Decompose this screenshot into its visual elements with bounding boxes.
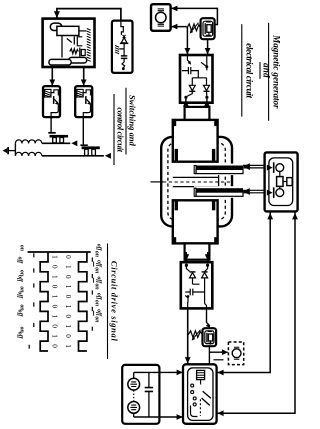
battery box outline bbox=[122, 365, 159, 424]
motor M1 circle bbox=[156, 12, 167, 23]
arrowhead into motor top bbox=[171, 6, 177, 12]
snubber tail dot bbox=[122, 67, 125, 70]
wire W1 down right side bbox=[217, 211, 271, 372]
snubber diode bar bbox=[120, 42, 128, 44]
U3 center rect bbox=[279, 172, 281, 189]
underline Switching and bbox=[125, 88, 127, 155]
arrowhead up into U3 right bbox=[292, 213, 298, 219]
gap band lines bbox=[173, 173, 219, 190]
MOSFET Q2 channel bar bbox=[82, 146, 100, 149]
battery dotted link bbox=[133, 390, 135, 401]
coil bar W1 solid bbox=[196, 166, 243, 170]
coil bar W1 left cap bbox=[194, 166, 196, 174]
wire rectangle to winding bbox=[79, 30, 87, 32]
arrowhead into driver A bbox=[49, 80, 55, 86]
relay K2 stubs bbox=[208, 331, 213, 344]
svg-text:1: 1 bbox=[64, 305, 72, 309]
motor box M1 outline bbox=[151, 4, 171, 31]
terminal bar bbox=[7, 147, 9, 154]
wire joining L1 L2 bbox=[14, 143, 16, 156]
generator axis line bbox=[151, 181, 164, 183]
svg-text:Circuit drive signal: Circuit drive signal bbox=[109, 261, 119, 342]
svg-text:1: 1 bbox=[64, 285, 72, 289]
svg-text:and: and bbox=[262, 63, 272, 78]
rectifier box U3 outline bbox=[265, 152, 298, 211]
underline Magnetic generator bbox=[268, 23, 270, 121]
U2 exit wires bbox=[188, 302, 207, 308]
resistor R1 zigzag bbox=[187, 24, 201, 31]
U2 top terminal dots bbox=[185, 264, 188, 267]
battery leads bbox=[133, 372, 135, 417]
wire to motor M2 bbox=[210, 351, 228, 353]
U1 left hook wire bbox=[187, 56, 190, 64]
svg-text:off: off bbox=[17, 332, 23, 340]
battery wire top bbox=[134, 371, 183, 373]
svg-text:0: 0 bbox=[64, 334, 72, 338]
MOSFET Q1 gate wire bbox=[50, 117, 52, 132]
svg-text:0: 0 bbox=[50, 324, 58, 328]
wire relay K1 to inverter right bbox=[207, 39, 209, 55]
svg-text:1: 1 bbox=[50, 255, 58, 259]
driver B coil hatch bbox=[76, 89, 84, 100]
MOSFET Q1 gate bar bbox=[48, 132, 55, 134]
timing left square wave bbox=[40, 252, 48, 351]
generator core ring bbox=[161, 137, 232, 227]
switching control box outline bbox=[43, 19, 95, 67]
snubber zener cross bbox=[123, 35, 126, 38]
resistor R2 zigzag bbox=[188, 331, 202, 338]
switch box S1 outline bbox=[183, 364, 217, 424]
U2 hooks bbox=[186, 265, 189, 271]
terminal arrowhead bbox=[3, 148, 8, 153]
S1 contact circles bbox=[191, 384, 194, 387]
svg-text:1: 1 bbox=[50, 334, 58, 338]
relay K1 core rect bbox=[207, 25, 211, 33]
svg-text:0: 0 bbox=[50, 305, 58, 309]
svg-text:off: off bbox=[17, 291, 23, 299]
svg-text:0: 0 bbox=[50, 344, 58, 348]
timing digits right column bbox=[64, 255, 72, 348]
MOSFET Q2 gate wire bbox=[82, 117, 84, 144]
svg-text:off: off bbox=[17, 310, 23, 318]
S1 switch blades bbox=[202, 391, 211, 405]
relay K2 left bar bbox=[206, 333, 208, 342]
rectangle component inside switching box bbox=[57, 26, 79, 35]
generator lower stem bbox=[185, 243, 210, 259]
W1 wires to rectifier bbox=[243, 165, 265, 168]
stub wire below motor feed bbox=[214, 359, 224, 361]
timing separator dashes left bbox=[29, 253, 34, 348]
coil bar W2 solid bbox=[196, 188, 243, 192]
svg-text:on: on bbox=[94, 284, 100, 290]
arrows stem bottom to U2 bbox=[185, 252, 187, 262]
U1 diode D1 bbox=[189, 85, 195, 90]
relay K2 core rect bbox=[208, 334, 212, 341]
arrowhead left on node B rail bbox=[105, 153, 111, 159]
svg-text:off: off bbox=[17, 257, 23, 265]
inductor L2 bbox=[15, 152, 41, 155]
arrowhead into switch box left top bbox=[177, 370, 183, 376]
inverter box U1 outline bbox=[180, 55, 213, 103]
U1 bottom terminal dots bbox=[184, 96, 187, 99]
generator lower pole block bbox=[173, 200, 218, 243]
relay K1 inner frame bbox=[203, 21, 213, 36]
U2 diode D4 bbox=[202, 273, 208, 278]
svg-text:0: 0 bbox=[64, 295, 72, 299]
U3 inner frame bbox=[269, 158, 293, 206]
underline and bbox=[259, 62, 261, 79]
svg-text:1: 1 bbox=[64, 265, 72, 269]
inverter box U2 outline bbox=[181, 262, 213, 308]
W2 arrowhead bbox=[243, 188, 250, 195]
driver A transistor bbox=[53, 96, 55, 104]
snubber coil hatch bbox=[115, 46, 119, 54]
svg-text:Switching and: Switching and bbox=[128, 95, 138, 147]
generator upper pole block bbox=[173, 120, 218, 162]
MOSFET Q2 gate bar bbox=[80, 144, 87, 146]
wire U2 left down to switch box bbox=[187, 308, 189, 364]
arrowhead down left inverter entry bbox=[185, 48, 191, 54]
lower pole bold bars bbox=[175, 200, 178, 210]
driver B internal wire bbox=[83, 90, 91, 96]
svg-text:on: on bbox=[94, 316, 100, 322]
relay box K2 outline bbox=[203, 328, 217, 346]
MOSFET Q1 channel bar bbox=[50, 135, 69, 138]
svg-text:on: on bbox=[94, 251, 100, 257]
timing right square wave bbox=[79, 252, 87, 351]
underline Circuit drive signal bbox=[107, 244, 109, 360]
coil bar W2 left cap bbox=[194, 188, 196, 196]
snubber tail wire bbox=[122, 58, 125, 68]
arrowhead into driver B bbox=[81, 80, 87, 86]
snubber capacitor bbox=[121, 56, 127, 59]
U1 mid rail bbox=[192, 78, 206, 85]
S1 dashed link bbox=[199, 399, 201, 416]
arrowhead left on node A rail bbox=[71, 140, 77, 146]
driver A coil hatch bbox=[43, 89, 51, 100]
svg-text:control circuit: control circuit bbox=[116, 107, 126, 152]
relay K1 left bar bbox=[204, 23, 206, 34]
generator dashed flux path bbox=[168, 143, 225, 220]
motor M2 circle bbox=[232, 349, 241, 358]
svg-text:0: 0 bbox=[64, 315, 72, 319]
driver A exit wire bbox=[51, 104, 58, 117]
S1 relay coil bbox=[197, 370, 205, 379]
snubber link wires bbox=[119, 43, 124, 56]
motor M1 brush marks bbox=[158, 9, 164, 26]
resistor zigzag inside switching box bbox=[70, 49, 79, 54]
driver A internal wire bbox=[51, 90, 59, 96]
timing separator dashes right bbox=[91, 258, 93, 331]
driver B exit wire bbox=[83, 104, 90, 117]
arrowhead into switch box left bottom bbox=[177, 414, 183, 420]
battery cell B2 bbox=[128, 402, 140, 414]
driver box A outline bbox=[43, 86, 60, 117]
snubber diode triangle bbox=[121, 38, 127, 43]
coil bar W1 halo bbox=[194, 164, 250, 176]
coil bar W2 outline bbox=[196, 192, 243, 196]
S1 inner frame bbox=[188, 368, 213, 421]
coil bar W1 outline bbox=[196, 169, 243, 173]
wire node B rail bbox=[42, 155, 104, 157]
MOSFET Q2 legs bbox=[85, 149, 89, 155]
arrowhead into motor bottom bbox=[171, 24, 177, 30]
wire relay K2 to switch box bbox=[208, 346, 210, 364]
svg-text:1: 1 bbox=[50, 295, 58, 299]
W2 wires to rectifier bbox=[243, 190, 265, 193]
U1 capacitor row bbox=[182, 67, 198, 78]
wire switching box to driver B bbox=[83, 67, 85, 86]
transistor detail inside switching box bbox=[67, 39, 72, 43]
svg-text:1: 1 bbox=[50, 275, 58, 279]
svg-text:0: 0 bbox=[50, 285, 58, 289]
U2 bottom hook bbox=[185, 295, 188, 302]
wire from rectangle down bbox=[61, 36, 63, 58]
arrowhead down into switching box bbox=[54, 11, 60, 18]
relay K2 inner frame bbox=[205, 331, 214, 344]
bus bar pill left bbox=[49, 59, 71, 65]
svg-text:1: 1 bbox=[50, 315, 58, 319]
svg-text:0: 0 bbox=[64, 275, 72, 279]
battery wire bottom bbox=[134, 416, 183, 418]
svg-text:Magnetic generator: Magnetic generator bbox=[271, 34, 281, 109]
resistor R2 arrow bbox=[193, 330, 201, 340]
underline electrical circuit bbox=[241, 24, 243, 116]
svg-text:on: on bbox=[18, 245, 24, 251]
winding hatch right side of switching box bbox=[87, 29, 91, 62]
arrowhead on right wire bottom entry bbox=[217, 410, 223, 416]
U2 mid wires bbox=[193, 284, 205, 304]
inductor L1 bbox=[15, 140, 41, 143]
relay K1 stubs bbox=[206, 22, 211, 36]
wire node A rail bbox=[42, 142, 70, 144]
terminal lead bbox=[8, 150, 15, 152]
wire junction drop to inverter left bbox=[186, 27, 188, 55]
motor box M2 dashed outline bbox=[228, 342, 243, 365]
svg-text:0: 0 bbox=[50, 265, 58, 269]
timing labels left bbox=[17, 245, 25, 340]
S1 bottom hook bbox=[191, 406, 198, 417]
battery cell B1 bbox=[128, 378, 140, 390]
capacitor C1 bbox=[148, 372, 150, 417]
arrowhead into motor M2 bbox=[222, 349, 228, 355]
arrowhead down into switch box bbox=[185, 357, 191, 363]
capsule component inside switching box bbox=[50, 23, 62, 30]
wire W2 down far right bbox=[217, 211, 295, 413]
wire motor to relay top bbox=[171, 8, 218, 24]
overbar marks on right off labels bbox=[93, 262, 95, 316]
svg-text:off: off bbox=[17, 275, 23, 283]
coil bar W2 halo bbox=[194, 186, 250, 198]
U3 transistor T2 bbox=[267, 190, 273, 196]
motor M2 brush marks bbox=[234, 347, 239, 359]
U1 transistor marks bbox=[201, 62, 207, 70]
wire U2 right down to relay K2 bbox=[207, 308, 210, 328]
U1 diode D2 bbox=[204, 85, 210, 90]
arrows stem top into U1 bbox=[185, 97, 187, 107]
U2 diode D3 bbox=[190, 273, 196, 278]
MOSFET Q1 legs bbox=[53, 138, 57, 143]
wire switching box to driver A bbox=[51, 67, 53, 86]
U3 transistor T1 bbox=[267, 165, 273, 171]
snubber step wire bbox=[121, 21, 123, 35]
W1 arrowhead bbox=[243, 163, 250, 170]
timing labels right bbox=[94, 244, 102, 323]
wire motor lower lead bbox=[171, 26, 187, 28]
U1 right lead with dot bbox=[206, 56, 208, 67]
relay box K1 outline bbox=[201, 18, 215, 39]
svg-text:0: 0 bbox=[64, 255, 72, 259]
upper pole bold bars bbox=[173, 120, 176, 126]
svg-text:1: 1 bbox=[64, 324, 72, 328]
U2 capacitor row bbox=[185, 289, 204, 296]
svg-text:1: 1 bbox=[64, 344, 72, 348]
underline control circuit bbox=[113, 94, 115, 165]
bus bar pill right bbox=[69, 57, 87, 63]
arrowhead down right inverter entry bbox=[205, 48, 211, 54]
svg-text:on: on bbox=[94, 300, 100, 306]
resistor R1 arrow bbox=[191, 23, 199, 33]
driver B transistor bbox=[85, 96, 87, 104]
U3 right rect bbox=[283, 181, 287, 183]
wire top feed from switching box to snubber box bbox=[57, 9, 121, 21]
arrowhead into relay K2 bbox=[206, 324, 210, 328]
arrowhead on right wire top entry bbox=[217, 370, 223, 376]
arrowhead up into U3 left bbox=[267, 213, 273, 219]
small component inside switching box bbox=[79, 48, 81, 57]
snubber box outline bbox=[112, 21, 133, 73]
generator upper stem bbox=[185, 107, 210, 121]
driver box B outline bbox=[75, 86, 92, 117]
svg-text:on: on bbox=[94, 267, 100, 273]
svg-text:electrical circuit: electrical circuit bbox=[244, 43, 254, 98]
timing top line bbox=[28, 251, 91, 253]
timing digits left column bbox=[50, 255, 58, 348]
